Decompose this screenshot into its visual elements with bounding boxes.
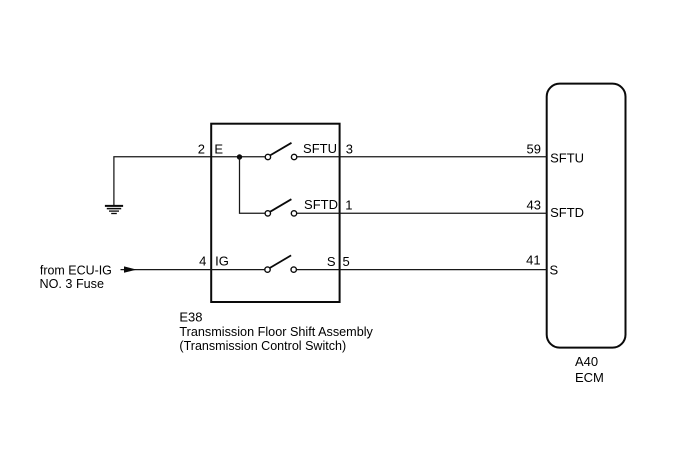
ground — [105, 206, 123, 214]
svg-text:SFTU: SFTU — [550, 151, 584, 166]
svg-text:4: 4 — [199, 254, 206, 269]
svg-text:ECM: ECM — [575, 370, 604, 385]
svg-text:59: 59 — [527, 141, 541, 156]
wire junction down to row2 — [240, 157, 265, 213]
svg-text:5: 5 — [343, 254, 350, 269]
svg-text:NO. 3 Fuse: NO. 3 Fuse — [40, 276, 105, 291]
svg-text:A40: A40 — [575, 354, 598, 369]
arrow from ECU-IG fuse — [124, 266, 137, 272]
svg-text:41: 41 — [526, 253, 540, 268]
switch SFTU — [265, 143, 297, 160]
wire ground to E pin — [114, 157, 212, 206]
svg-text:E: E — [214, 141, 223, 156]
svg-text:(Transmission Control Switch): (Transmission Control Switch) — [179, 338, 346, 353]
svg-text:E38: E38 — [179, 310, 202, 325]
svg-text:S: S — [550, 263, 559, 278]
wire SFTU to ECM pin 59 — [297, 156, 547, 158]
node junction dot — [237, 154, 242, 159]
svg-text:43: 43 — [527, 197, 541, 212]
connector A40 ECM — [547, 84, 626, 348]
svg-text:Transmission Floor Shift Assem: Transmission Floor Shift Assembly — [179, 324, 373, 339]
wire SFTD to ECM pin 43 — [297, 212, 547, 214]
connector E38 box — [211, 124, 339, 302]
switch SFTD — [265, 199, 297, 216]
svg-text:3: 3 — [346, 141, 353, 156]
wire from fuse to IG pin — [121, 269, 265, 271]
svg-text:S: S — [327, 254, 336, 269]
svg-text:SFTD: SFTD — [304, 197, 338, 212]
svg-text:2: 2 — [198, 141, 205, 156]
svg-text:1: 1 — [345, 198, 352, 213]
switch S — [265, 255, 297, 272]
svg-text:SFTU: SFTU — [303, 141, 337, 156]
svg-text:SFTD: SFTD — [550, 205, 584, 220]
svg-text:IG: IG — [215, 254, 229, 269]
wire S to ECM pin 41 — [297, 269, 547, 271]
wire row1 E to switch — [212, 156, 265, 158]
